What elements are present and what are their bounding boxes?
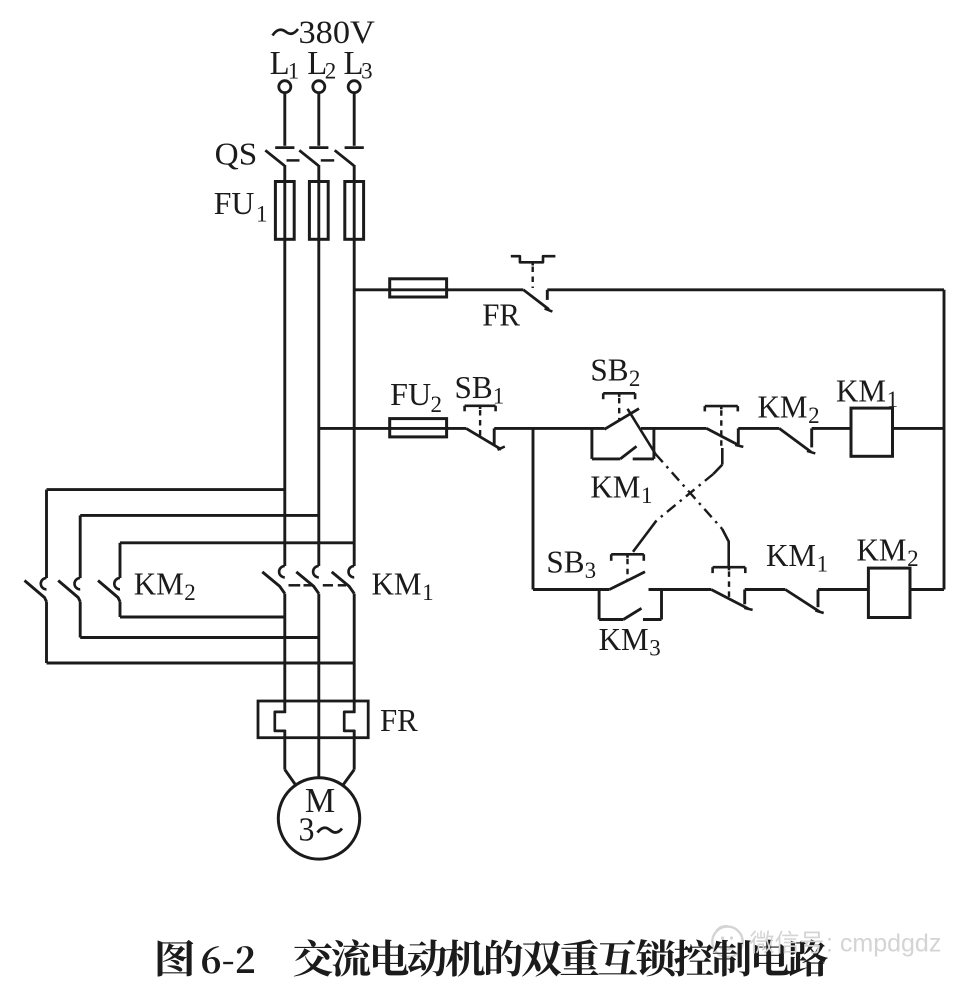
svg-text:FU: FU xyxy=(214,185,255,221)
svg-text:KM: KM xyxy=(134,565,184,601)
svg-text:QS: QS xyxy=(215,135,258,171)
svg-text:3: 3 xyxy=(299,812,315,849)
svg-text:2: 2 xyxy=(907,546,919,571)
svg-text:L: L xyxy=(270,45,290,82)
svg-text:KM: KM xyxy=(857,532,907,568)
svg-text:FR: FR xyxy=(380,702,418,738)
svg-text:1: 1 xyxy=(887,387,899,412)
svg-text:3: 3 xyxy=(361,59,373,84)
svg-text:2: 2 xyxy=(325,59,337,84)
svg-text:FR: FR xyxy=(482,297,520,333)
svg-text:2: 2 xyxy=(808,403,820,428)
svg-text:1: 1 xyxy=(817,551,829,576)
svg-text:3: 3 xyxy=(585,558,597,583)
svg-text:SB: SB xyxy=(590,351,628,387)
svg-text:KM: KM xyxy=(766,537,816,573)
svg-text:2: 2 xyxy=(629,366,641,391)
svg-text:1: 1 xyxy=(288,59,300,84)
svg-text:FU: FU xyxy=(390,376,431,412)
svg-text:KM: KM xyxy=(372,565,422,601)
svg-text:KM: KM xyxy=(758,388,808,424)
svg-text:2: 2 xyxy=(184,580,196,605)
svg-text:KM: KM xyxy=(590,469,640,505)
svg-text:1: 1 xyxy=(493,384,505,409)
svg-text:1: 1 xyxy=(641,483,653,508)
svg-text:SB: SB xyxy=(455,369,493,405)
svg-text:KM: KM xyxy=(599,621,649,657)
svg-text:1: 1 xyxy=(422,580,434,605)
svg-text:1: 1 xyxy=(256,202,268,227)
svg-text:SB: SB xyxy=(546,544,584,580)
svg-text:KM: KM xyxy=(836,372,886,408)
svg-text:2: 2 xyxy=(431,392,443,417)
svg-text:: cmpdgdz: : cmpdgdz xyxy=(826,930,941,958)
svg-text:3: 3 xyxy=(649,636,661,661)
